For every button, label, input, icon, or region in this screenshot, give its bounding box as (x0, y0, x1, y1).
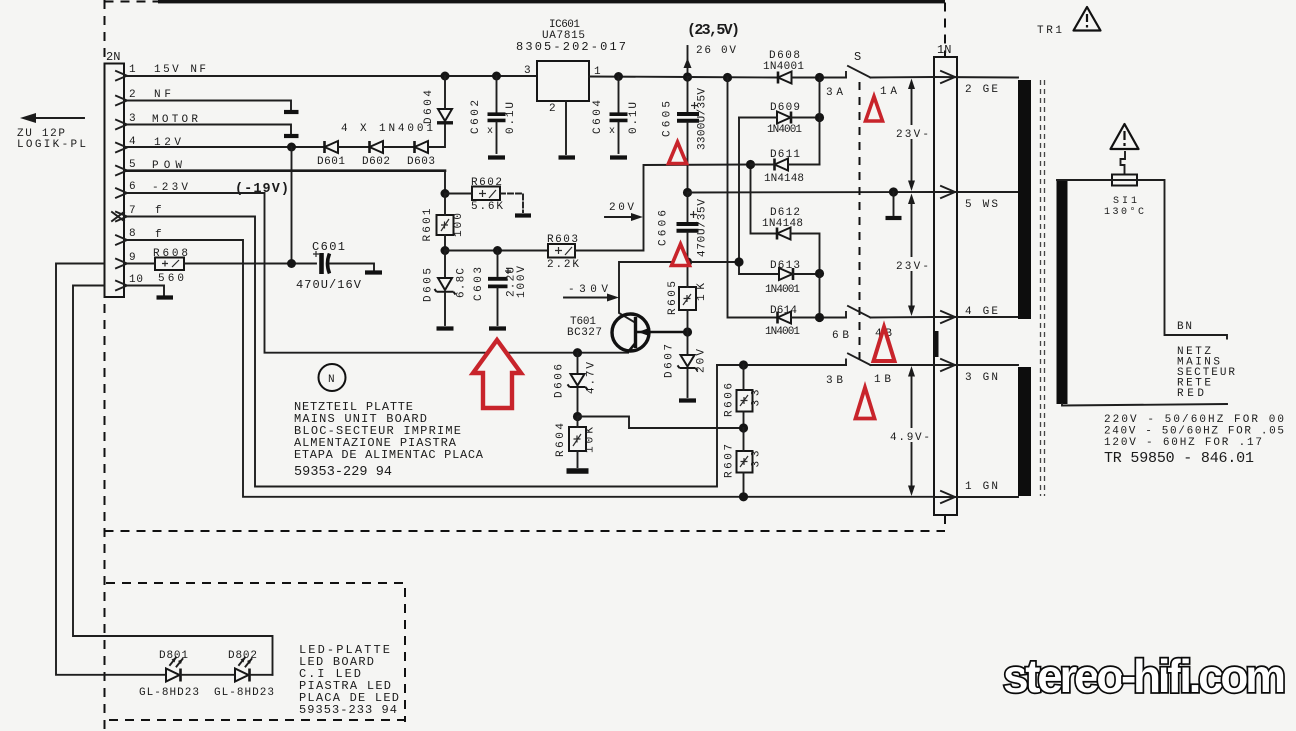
wire pin9 left side to LED board (56, 264, 166, 675)
ground R602 (515, 213, 531, 217)
svg-text:10: 10 (129, 274, 143, 286)
switch gang dashed link (859, 82, 861, 360)
svg-text:470U/35V: 470U/35V (697, 199, 709, 257)
wire fuse to primary top (1057, 179, 1096, 181)
pin numbers (129, 64, 143, 286)
diode D612 (777, 228, 791, 240)
ground C601 (365, 270, 382, 274)
wire pin1 15V NF to IC601 pin3 (127, 75, 537, 77)
main board dashed border top (158, 0, 945, 3)
node rail C on D611 row (746, 160, 755, 169)
svg-text:9: 9 (129, 252, 136, 264)
1N pin chevrons (941, 71, 955, 503)
R605 stems (687, 262, 689, 332)
zener D607 (664, 332, 708, 397)
red triangle marker C (1A) (866, 97, 883, 122)
svg-text:6: 6 (129, 181, 136, 193)
svg-text:2 GE: 2 GE (965, 84, 998, 96)
node D606 top (573, 348, 582, 357)
svg-text:220V - 50/60HZ FOR 00: 220V - 50/60HZ FOR 00 (1104, 414, 1284, 426)
wire pin5 POW (127, 169, 445, 172)
node D604 top (441, 72, 450, 81)
wire POW down to R601/R602 node (444, 171, 446, 194)
red triangle marker A (C605) (669, 142, 687, 164)
connector 2N pin chevrons (116, 71, 127, 290)
LED board dashed border (106, 583, 405, 722)
zener D605 (423, 251, 468, 326)
wire R601 stems (444, 194, 446, 251)
wire pin6 -23V down and across (127, 193, 628, 353)
wire R602 to ground (500, 194, 523, 213)
node C602 top (492, 72, 501, 81)
capacitor C602 (470, 76, 517, 153)
wire 0V rail to 5 WS (688, 191, 935, 194)
node 0V ground stub (889, 187, 898, 196)
svg-text:5 WS: 5 WS (965, 199, 998, 211)
ground C602 (488, 155, 505, 159)
svg-text:GL-8HD23: GL-8HD23 (139, 687, 199, 699)
pin net labels (152, 64, 206, 241)
svg-text:59353-233 94: 59353-233 94 (299, 703, 397, 717)
switch 1B (846, 354, 871, 366)
svg-text:3300U/35V: 3300U/35V (697, 88, 709, 150)
svg-text:RED: RED (1177, 388, 1204, 400)
ZU 12P LOGIK-PL arrow (33, 117, 84, 119)
diode D604 (437, 109, 453, 123)
main board dashed border left (104, 0, 106, 731)
ladder left rail A (728, 78, 778, 318)
svg-text:D611: D611 (770, 149, 800, 161)
IC601 pin2 to ground (565, 101, 567, 154)
transformer TR1 secondary winding upper (1018, 80, 1031, 319)
svg-text:100: 100 (453, 213, 465, 237)
node C606 bottom / base drive (683, 257, 692, 266)
wire D802 to corner (250, 674, 273, 676)
LED D801 (166, 658, 183, 682)
R606 stems (743, 365, 745, 428)
svg-text:10K: 10K (585, 427, 597, 453)
wire IC601 pin1 out (589, 76, 688, 79)
wire D602-D603 (383, 146, 415, 148)
transformer TR1 primary winding (1057, 180, 1068, 404)
node rail B base drive (734, 257, 743, 266)
wire 3GN row to switch 3B (717, 364, 846, 366)
node ladder left rail top (723, 73, 732, 82)
svg-text:N: N (328, 374, 335, 386)
svg-text:R603: R603 (547, 234, 578, 246)
resistor R602 (472, 187, 500, 201)
svg-text:S: S (854, 50, 861, 64)
wire 12V vertical to C601 (291, 147, 293, 264)
node D609 right (815, 113, 824, 122)
svg-text:SI1: SI1 (1113, 196, 1137, 207)
N circle mark (319, 364, 346, 391)
1N divider bar (933, 331, 939, 357)
switch 4B (846, 306, 871, 318)
svg-text:TR1: TR1 (1037, 25, 1062, 37)
resistor R608 (155, 258, 184, 271)
ground 0V rail (893, 192, 895, 215)
wire D603 up to D604 (428, 125, 445, 147)
svg-text:x: x (609, 126, 615, 137)
node emitter / R605 bottom (683, 327, 692, 336)
T601 base bar (634, 317, 637, 348)
ground R604 (567, 468, 589, 474)
wire 15V to D604 (444, 76, 446, 109)
ground pin2 (284, 110, 299, 114)
ladder rail C (751, 165, 778, 234)
node C605 bottom / 0V rail (683, 188, 692, 197)
node D608 right (815, 73, 824, 82)
wire base drive row (619, 262, 688, 298)
svg-text:20V: 20V (696, 349, 708, 373)
node C604 (614, 72, 623, 81)
transformer TR1 secondary winding lower (1018, 367, 1031, 496)
svg-text:1N4148: 1N4148 (764, 173, 804, 185)
svg-text:1N4001: 1N4001 (765, 326, 800, 338)
wire D609 row (739, 117, 820, 119)
wire primary bottom lead (1062, 404, 1227, 406)
svg-text:2.2K: 2.2K (547, 259, 579, 271)
node R601 bottom (441, 246, 450, 255)
zener D606 (554, 353, 598, 417)
node 12V / C601 branch (287, 143, 296, 152)
wire D611 row (751, 164, 820, 166)
node R606 bottom (739, 423, 748, 432)
wire R603 right up to 20V rail (575, 165, 751, 251)
svg-text:TR 59850 - 846.01: TR 59850 - 846.01 (1104, 450, 1254, 467)
capacitor C603 (473, 251, 528, 326)
ground C604 (610, 155, 627, 159)
svg-text:0.1U: 0.1U (505, 102, 517, 134)
svg-text:3: 3 (524, 65, 531, 77)
svg-text:1N4148: 1N4148 (762, 218, 803, 230)
svg-text:5.6K: 5.6K (471, 201, 503, 213)
resistor R603 (548, 244, 575, 258)
wire base lead into T601 (619, 298, 634, 323)
wire D614 right to switch (791, 317, 846, 319)
diode D614 (778, 312, 792, 324)
ground D607 (679, 398, 696, 402)
svg-text:0.1U: 0.1U (628, 102, 640, 134)
svg-text:R601: R601 (422, 208, 434, 241)
wire fuse right / BN lead (1145, 180, 1227, 339)
svg-text:2: 2 (549, 103, 556, 115)
svg-text:100V: 100V (516, 266, 528, 298)
wires 1N to transformer (934, 77, 1018, 497)
svg-text:(-19V): (-19V) (235, 182, 289, 197)
svg-text:59353-229 94: 59353-229 94 (294, 465, 392, 480)
svg-text:3: 3 (129, 113, 136, 125)
voltage table (1104, 414, 1284, 449)
svg-text:GL-8HD23: GL-8HD23 (214, 687, 274, 699)
diode D608 (778, 72, 792, 84)
R607 stems (743, 428, 745, 497)
svg-text:D802: D802 (228, 650, 257, 662)
capacitor C601 (296, 240, 362, 292)
wire D601-D602 (338, 146, 370, 148)
diode D602 (370, 141, 384, 153)
svg-text:240V - 50/60HZ FOR .05: 240V - 50/60HZ FOR .05 (1104, 426, 1284, 438)
wire pin7 f down, across, up to switch 3B (127, 217, 717, 487)
svg-text:stereo-hifi.com: stereo-hifi.com (1003, 650, 1285, 702)
fuse SI1 lead from triangle (1121, 152, 1126, 174)
wire 23,5V arrow down to node (687, 46, 689, 77)
svg-text:D603: D603 (407, 156, 435, 168)
node 23,5V (683, 72, 692, 81)
main board dashed border bottom (105, 530, 946, 532)
resistor R601 (437, 215, 454, 235)
svg-text:1N: 1N (937, 43, 951, 57)
svg-text:26 0V: 26 0V (696, 45, 736, 57)
svg-text:470U/16V: 470U/16V (296, 278, 362, 292)
svg-text:ETAPA DE ALIMENTAC PLACA: ETAPA DE ALIMENTAC PLACA (294, 448, 484, 462)
capacitor C605 (662, 77, 709, 193)
wire D606 bottom jog to R606/R607 node (578, 417, 744, 429)
wire pin9 to R608 to C601 (127, 263, 316, 265)
big red arrow annotation (473, 340, 521, 408)
svg-text:D614: D614 (770, 305, 797, 317)
svg-text:20V: 20V (609, 202, 634, 214)
diode D601 (325, 141, 339, 153)
main board dashed border right (944, 3, 946, 532)
svg-text:560: 560 (158, 273, 184, 285)
wire pin3 MOTOR to ground (127, 125, 291, 135)
node R606 top (739, 360, 748, 369)
svg-text:R602: R602 (471, 177, 502, 189)
ground pin3 (284, 134, 299, 138)
svg-text:7: 7 (129, 205, 136, 217)
resistor R604 (569, 427, 586, 451)
svg-text:C601: C601 (312, 240, 345, 254)
warning triangle top (1074, 7, 1101, 31)
svg-text:BC327: BC327 (567, 327, 602, 339)
node C603 top (493, 246, 502, 255)
R604 stems (577, 417, 579, 468)
svg-text:8: 8 (129, 228, 136, 240)
svg-text:4.7V: 4.7V (586, 362, 598, 394)
wire D608 to switch 1A (792, 77, 847, 79)
wire node to R602 (445, 193, 472, 195)
capacitor C604 (592, 77, 640, 154)
svg-text:1N4001: 1N4001 (765, 284, 800, 296)
connector 1N box (934, 57, 957, 515)
red triangle marker E (1B) (856, 388, 875, 419)
node D614 right (815, 313, 824, 322)
svg-text:1N4001: 1N4001 (767, 124, 802, 136)
LED board text block (299, 643, 399, 717)
LED D802 (235, 658, 252, 682)
wire pin10 to ground (127, 286, 164, 296)
board name text block (294, 400, 484, 462)
wire pin8 f down and across to 1 GN (127, 240, 934, 497)
dimension line 23V bottom (894, 194, 930, 317)
ground pin10 (157, 295, 174, 299)
wire R601 to R603 (445, 250, 548, 252)
diode D603 (415, 141, 429, 153)
wire D613 right (793, 273, 820, 275)
connector 2N box (105, 64, 125, 298)
end bar D605 (437, 326, 454, 330)
dimension line 23V top (894, 79, 930, 192)
diode D609 (777, 112, 791, 124)
svg-text:BN: BN (1177, 321, 1192, 333)
NETZ MAINS text block (1177, 346, 1235, 400)
red triangle marker B (C606) (672, 244, 690, 266)
wire D612 row to right rail (791, 234, 820, 274)
wire pin10 left side to LED board (73, 286, 273, 675)
transformer core lines (1041, 80, 1045, 496)
right rail D613-D614 (819, 274, 821, 318)
T601 emitter with arrow (636, 331, 688, 334)
switch 1A (846, 66, 871, 78)
transistor T601 circle (612, 314, 649, 351)
svg-text:1: 1 (129, 64, 136, 76)
svg-text:D602: D602 (362, 156, 390, 168)
resistor R606 (737, 390, 753, 412)
svg-text:D601: D601 (317, 156, 345, 168)
node D606 bottom (573, 412, 582, 421)
svg-text:6.8C: 6.8C (456, 268, 468, 298)
svg-text:(23,5V): (23,5V) (687, 22, 740, 39)
svg-text:2N: 2N (106, 50, 120, 64)
node R601/R602 (441, 189, 450, 198)
dimension line 4.9V (888, 366, 932, 496)
node D613 right (815, 269, 824, 278)
pin 7 no-connect cross (112, 212, 124, 221)
svg-text:1N4001: 1N4001 (763, 61, 804, 73)
end bar C603 (489, 326, 506, 330)
wire top rail to D608 (688, 76, 778, 79)
wire pin4 12V (127, 146, 325, 148)
capacitor C606 (658, 193, 709, 263)
svg-text:f: f (155, 205, 162, 217)
diode D613 (779, 268, 793, 280)
resistor R605 (679, 287, 696, 310)
svg-text:130°C: 130°C (1104, 206, 1144, 218)
fuse SI1 (1096, 175, 1145, 186)
resistor R607 (737, 451, 753, 473)
wire D801 to D802 (181, 674, 236, 676)
svg-text:4.9V-: 4.9V- (890, 432, 930, 444)
IC601 box (537, 61, 589, 101)
node R607 bottom on 1GN wire (739, 492, 748, 501)
diode D611 (775, 159, 789, 171)
T601 collector (628, 343, 636, 353)
svg-text:D609: D609 (770, 102, 800, 114)
svg-text:D801: D801 (159, 650, 188, 662)
warning triangle fuse (1111, 124, 1139, 149)
svg-text:D613: D613 (770, 260, 800, 272)
red triangle marker D (4B) (874, 327, 895, 361)
svg-text:5: 5 (129, 159, 136, 171)
node C601 (287, 259, 296, 268)
svg-text:x: x (487, 126, 493, 137)
ladder rail B (739, 118, 779, 275)
wire pin2 NF to ground (127, 101, 291, 111)
right rail D608-D611 (819, 78, 821, 165)
wire C601 to ground (330, 264, 374, 271)
svg-text:2: 2 (129, 89, 136, 101)
